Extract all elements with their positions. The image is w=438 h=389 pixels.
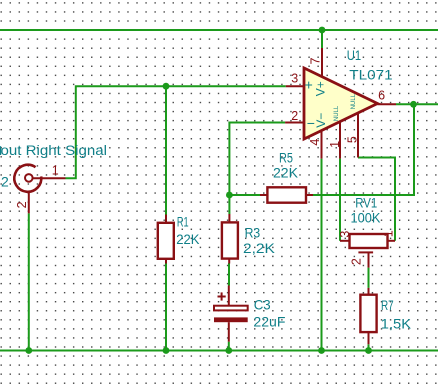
resistor R5 body [267, 187, 306, 202]
svg-text:3: 3 [338, 231, 352, 238]
wire connector pin1 to op-amp pin3 [66, 86, 286, 178]
resistor R3 bottom lead [228, 259, 230, 264]
capacitor C3 top plate [214, 306, 248, 311]
junction ground / R7 [365, 347, 372, 354]
wire R3 bottom to C3 top [228, 263, 230, 286]
junction ground / connector [25, 347, 32, 354]
wire op-amp pin5 to RV1 pin1 [358, 158, 395, 241]
wire connector pin2 down to ground rail [28, 213, 30, 350]
wire C3 bottom to ground rail [228, 342, 230, 351]
svg-text:V+: V+ [314, 81, 328, 96]
connector pin 1 lead [33, 177, 66, 179]
resistor R3 top lead [228, 214, 230, 222]
svg-text:+: + [305, 76, 313, 92]
svg-text:7: 7 [308, 57, 322, 64]
wire node A to R3 top [228, 195, 230, 214]
connector P2 outer circle [14, 165, 41, 192]
op-amp pin 3 lead [286, 85, 304, 87]
resistor R5 right lead [306, 194, 313, 196]
svg-text:2: 2 [350, 258, 364, 265]
capacitor C3 bottom plate [214, 317, 248, 322]
junction input wire / R1 top [163, 83, 170, 90]
svg-text:5: 5 [345, 136, 359, 143]
svg-text:3: 3 [291, 72, 298, 86]
junction top rail / pin7 [319, 27, 326, 34]
wire op-amp pin7 from top rail [321, 30, 323, 48]
svg-text:TL071: TL071 [349, 67, 393, 83]
svg-text:2: 2 [291, 109, 298, 123]
capacitor C3 plus sign [218, 292, 226, 300]
op-amp pin 6 output lead [378, 103, 397, 105]
capacitor C3 top lead [228, 286, 230, 306]
potentiometer RV1 pin 1 lead [388, 240, 396, 242]
svg-text:22uF: 22uF [253, 314, 285, 330]
potentiometer RV1 body [350, 234, 388, 248]
svg-text:U1: U1 [347, 47, 362, 63]
resistor R7 bottom lead [368, 332, 370, 344]
wire bottom ground rail [0, 350, 438, 352]
connector pin 2 lead [28, 192, 30, 213]
wire R7 bottom to ground rail [368, 344, 370, 350]
resistor R1 top lead [165, 215, 167, 223]
connector label cut-off glyph sliver [0, 146, 1, 155]
svg-text:out Right Signal: out Right Signal [1, 142, 108, 158]
svg-text:100K: 100K [351, 210, 381, 226]
wire op-amp output to right edge [396, 103, 438, 105]
wire op-amp pin1 to RV1 pin3 [339, 159, 341, 241]
potentiometer RV1 wiper bar [358, 251, 373, 253]
svg-text:R5: R5 [279, 149, 293, 165]
op-amp U1 triangle body [304, 68, 378, 139]
wire RV1 wiper to R7 top [368, 268, 370, 288]
wire op-amp pin2 to node A [229, 123, 285, 196]
wire op-amp pin4 down to ground rail [321, 159, 323, 351]
svg-text:1: 1 [328, 141, 342, 148]
resistor R7 body [360, 295, 376, 332]
junction ground / R1 [163, 347, 170, 354]
op-amp pin 2 lead [285, 122, 304, 124]
wire top power rail [0, 29, 438, 31]
svg-text:C3: C3 [254, 296, 271, 312]
svg-text:NULL: NULL [334, 105, 340, 121]
potentiometer RV1 wiper lead [368, 252, 370, 267]
op-amp pin 7 lead [321, 48, 323, 78]
svg-text:R1: R1 [177, 213, 189, 229]
resistor R3 body [222, 222, 238, 258]
svg-text:1: 1 [382, 230, 396, 237]
wire output feedback to R5 right [313, 104, 414, 195]
svg-text:V−: V− [314, 113, 328, 128]
svg-text:1,5K: 1,5K [381, 315, 412, 331]
op-amp pin 1 lead [339, 122, 341, 159]
junction output / feedback [410, 101, 417, 108]
resistor R7 top lead [368, 288, 370, 295]
resistor R5 left lead [260, 194, 267, 196]
svg-text:R3: R3 [245, 224, 261, 240]
svg-text:22K: 22K [176, 231, 200, 247]
svg-text:2: 2 [1, 174, 9, 190]
potentiometer RV1 pin 3 lead [340, 240, 350, 242]
svg-text:4: 4 [308, 139, 322, 146]
connector P2 inner circle [25, 174, 33, 182]
svg-text:NULL: NULL [351, 93, 357, 109]
capacitor C3 bottom lead [228, 322, 230, 342]
op-amp pin 4 lead [321, 131, 323, 159]
wire R1 top [165, 86, 167, 214]
svg-text:1: 1 [52, 163, 59, 177]
svg-text:22K: 22K [273, 165, 299, 181]
junction ground / pin4 wire [318, 347, 325, 354]
svg-text:6: 6 [378, 89, 385, 103]
svg-text:RV1: RV1 [355, 195, 377, 211]
node A junction pin2/R5/R3 [226, 192, 233, 199]
op-amp pin 5 lead [357, 113, 359, 158]
junction ground / C3 [225, 347, 232, 354]
wire node A to R5 left [229, 194, 260, 196]
resistor R1 body [158, 223, 174, 259]
resistor R1 bottom lead [165, 259, 167, 264]
svg-text:2,2K: 2,2K [243, 240, 276, 256]
wire R1 bottom [165, 263, 167, 351]
svg-text:R7: R7 [381, 297, 394, 313]
svg-text:2: 2 [15, 201, 29, 208]
